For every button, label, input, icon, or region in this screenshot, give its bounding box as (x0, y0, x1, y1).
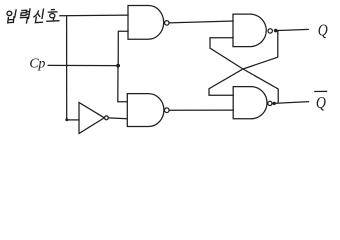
력 : ㅕ (26, 9, 30, 18)
wire: Cp line (48, 64, 118, 66)
wire: Q output line (276, 29, 309, 30)
신 : ㅣ (42, 9, 44, 18)
입 : ㅂ (8, 17, 14, 23)
wire: cross-coupling from gate3 output down to gate4 input A (209, 31, 278, 96)
wire: Q-bar output line (274, 102, 308, 104)
호 : ㅗ (47, 18, 59, 21)
label 입력신호 (input signal), hand-drawn Hangul strokes (7, 9, 59, 23)
NAND gate1 (top-left) (128, 6, 164, 40)
입 : ㅣ (15, 10, 16, 17)
node: Cp junction (116, 64, 120, 68)
wire: Cp junction up to gate1 input B (118, 31, 128, 65)
svg-text:Q: Q (318, 21, 329, 40)
wire: gate2 output to gate4 input B (169, 109, 233, 111)
wire: inverter output to gate2 input B (108, 117, 127, 120)
overline of Q-bar (315, 90, 327, 92)
wire: drop from input line down to inverter input (crosses Cp line) (66, 16, 68, 120)
NAND gate3 (top-right) (233, 14, 266, 47)
svg-text:Q: Q (316, 94, 327, 113)
신 : ㄴ (35, 17, 42, 23)
inverter bubble (105, 116, 109, 120)
wire: into inverter (67, 119, 79, 121)
신 : ㅅ (34, 11, 40, 17)
inverter triangle (79, 103, 104, 134)
NAND gate4 (bottom-right) (233, 87, 267, 119)
wire: Cp junction down to gate2 input A (118, 66, 127, 102)
node: gate3 output junction (274, 29, 278, 33)
wire: gate1 output to gate3 input A (169, 21, 233, 23)
gate1 bubble (165, 21, 170, 26)
입 : ㅇ (7, 11, 12, 15)
svg-text:Cp: Cp (29, 57, 45, 72)
label Q-bar (316, 94, 327, 113)
gate2 bubble (165, 108, 170, 113)
gate4 bubble (268, 101, 272, 105)
력 : ㄱ (21, 17, 28, 23)
node: corner dot at inverter input (65, 118, 68, 121)
호 : ㅎ (48, 10, 56, 13)
wire: input signal line to gate1 input A (60, 14, 128, 17)
wire: cross-coupling from gate4 output up to gate3 input B (210, 38, 278, 103)
NAND gate2 (bottom-left) (127, 94, 164, 127)
label Q (318, 21, 329, 40)
node: gate4 output junction (273, 102, 276, 105)
력 : ㄹ (21, 10, 27, 15)
gate3 bubble (268, 29, 272, 33)
